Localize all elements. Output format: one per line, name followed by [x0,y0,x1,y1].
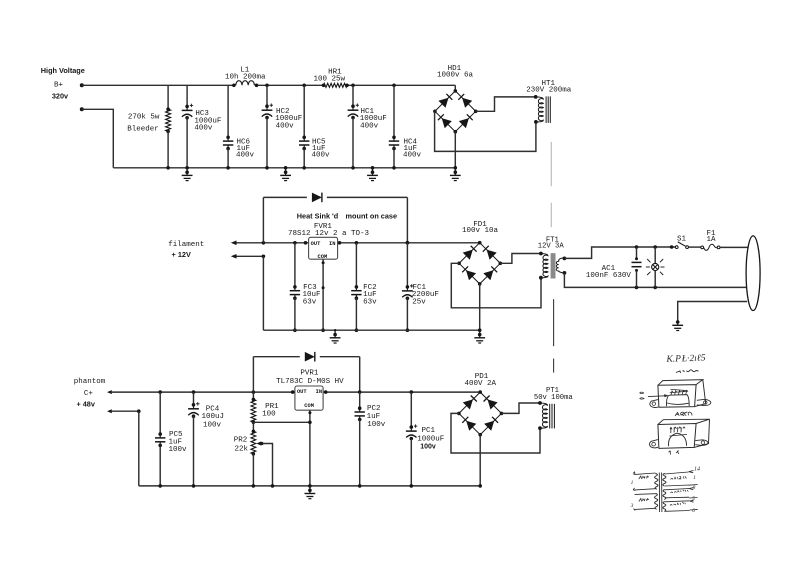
svg-text:400V 2A: 400V 2A [464,380,496,388]
ground HV-2 [285,168,287,172]
svg-text:400v: 400v [360,123,379,131]
svg-text:mount on case: mount on case [346,212,398,221]
wire HD1 AC2 to HT1 bottom [435,111,536,151]
bridge rectifier FD1 100v 10a [459,243,500,284]
bridge rectifier HD1 1000v 6a [435,91,476,132]
wire FT1 primary top to switch [564,247,675,258]
inductor L1 10h 200ma [232,84,236,88]
wire FD1 minus to ground rail [479,284,481,330]
svg-text:IN: IN [316,389,322,395]
svg-text:PC2: PC2 [367,405,381,413]
svg-text:100v 10a: 100v 10a [462,227,499,235]
wire FVD bypass top [263,196,307,198]
wire FT1 primary bottom [564,273,746,288]
transformer FT1 12V 3A [539,252,543,256]
capacitor HC3 1000uF 400v [186,85,188,106]
terminal B- [80,107,84,111]
svg-text:3: 3 [630,503,634,509]
svg-text:78S12 12v 2 a TO-3: 78S12 12v 2 a TO-3 [288,230,370,238]
svg-text:8: 8 [693,485,696,491]
transformer HT1 230V 200ma [534,95,538,99]
resistor bleeder 270k 5w [167,85,169,109]
svg-text:phantom: phantom [74,378,106,386]
svg-text:IN: IN [329,241,335,247]
svg-text:63v: 63v [363,299,377,307]
svg-text:400v: 400v [312,152,331,160]
ground HV-4 [454,168,456,172]
resistor PR1 100 [252,390,256,394]
svg-text:100: 100 [262,411,276,419]
svg-text:TL783C D-M0S HV: TL783C D-M0S HV [276,378,344,386]
svg-text:100nF 630V: 100nF 630V [586,272,632,280]
svg-text:14: 14 [694,466,700,473]
wire PD1 AC2 to PT1 bottom [451,413,540,453]
junction AC bottom at AC1 [635,286,639,290]
terminal C- [107,409,112,413]
svg-text:1uF: 1uF [367,413,381,421]
wire FVD anode riser [262,197,264,242]
wire +12V rail [237,242,309,244]
transformer PT1 50v 100ma [538,401,542,405]
wire PD1 AC1 to PT1 top [502,403,541,413]
capacitor HC2 1000uF 400v [265,84,269,88]
svg-text:100v: 100v [203,421,222,429]
wire S1 to F1 [689,246,701,248]
wire 12V return [237,255,264,257]
sketch transformer rear view box [658,424,696,449]
svg-text:OUT: OUT [297,389,307,395]
capacitor HC6 1uF 400v [227,85,229,137]
wire PVR1 COM stem [309,410,311,486]
svg-text:S1: S1 [677,236,687,244]
svg-text:Heat Sink 'd: Heat Sink 'd [297,212,338,221]
svg-text:+ 48v: + 48v [76,400,95,409]
capacitor PC4 100uJ 100v [192,390,196,394]
resistor HR1 100 25w [322,84,326,88]
pin PVR1 IN [324,390,328,394]
junction AC top at S1 [670,245,674,249]
capacitor PC1 1000uF 100v [410,390,414,394]
terminal 12V return [231,254,237,259]
capacitor HC5 1uF 400v [302,84,306,88]
wire C+ rail [112,391,295,393]
pin FVR1 OUT [304,241,308,245]
capacitor PC2 1uF 100v [358,390,362,394]
diode FVD1 bypass [312,193,322,203]
svg-text:Bleeder: Bleeder [127,125,159,133]
bridge rectifier PD1 400V 2A [459,392,502,435]
capacitor FC3 10uF 63v [293,241,297,245]
terminal B+ [80,83,84,87]
svg-text:400v: 400v [236,152,255,160]
ground FIL-2 [479,330,481,334]
svg-text:1000v 6a: 1000v 6a [437,71,474,79]
pin PVR1 OUT [291,390,295,394]
svg-text:6: 6 [692,508,695,514]
svg-text:50v 100ma: 50v 100ma [534,394,574,402]
wire PR1 to COM [253,421,310,423]
svg-text:63v: 63v [303,299,317,307]
wire C- return [112,410,139,412]
terminal C+ [107,390,112,394]
ground HV-3 [372,168,374,172]
wire B+ rail [82,84,234,86]
svg-text:100uJ: 100uJ [202,413,225,421]
svg-text:PVR1: PVR1 [300,370,319,378]
resistor PR2 22k pot [252,422,254,431]
svg-text:5: 5 [692,496,695,502]
junction AC top at neon [653,245,657,249]
svg-text:1A: 1A [706,236,716,244]
wire F1 to plug [720,246,748,248]
wire PVD anode riser [252,357,254,392]
junction +12V [262,241,266,245]
wire plug ground lead [678,302,748,323]
wire PVD bypass top [253,356,299,358]
svg-text:High Voltage: High Voltage [41,66,85,75]
switch S1 [675,246,678,249]
wire FVD cathode riser [406,197,408,242]
pin FVR1 IN [338,241,342,245]
capacitor FC2 1uF 63v [355,241,359,245]
svg-text:K.P Ł·2ıℓ5: K.P Ł·2ıℓ5 [665,354,706,365]
ground FIL-1 [334,330,336,334]
chassis boundary dashed line [550,142,552,186]
svg-text:100v: 100v [420,444,436,451]
junction AC bottom at neon [653,286,657,290]
svg-text:400v: 400v [276,123,295,131]
capacitor AC1 100nF 630V [636,247,638,259]
sketch transformer front view box [658,385,696,408]
svg-text:320v: 320v [52,92,69,101]
wire FVR1 COM stem [322,259,324,330]
capacitor PC5 1uF 100v [158,390,162,394]
svg-text:270k 5w: 270k 5w [128,113,160,121]
svg-text:100v: 100v [367,421,386,429]
svg-text:OUT: OUT [311,241,321,247]
diode PVD1 bypass [305,352,315,362]
wire phantom ground rail [139,485,480,487]
ground MAINS [676,320,680,324]
wire B- return [82,109,114,168]
sketch rear label [675,412,692,416]
svg-text:100v: 100v [169,446,188,454]
lamp NE1 neon [654,247,656,264]
svg-text:B+: B+ [54,81,64,89]
svg-text:+ 12V: + 12V [172,250,191,259]
connector AC plug [746,236,760,311]
svg-text:1: 1 [693,475,696,481]
svg-text:COM: COM [318,254,328,260]
capacitor HC4 1uF 400v [392,84,396,88]
wire HV ground rail [113,167,455,169]
wire FD1 AC1 to FT1 top [500,254,541,264]
sketch rear pin marks [668,450,678,454]
svg-text:12V 3A: 12V 3A [538,243,565,251]
svg-text:1: 1 [631,480,634,486]
svg-text:400v: 400v [403,152,422,160]
capacitor HC1 1000uF 400v [351,84,355,88]
sketch front label [676,370,699,373]
sketch winding diagram [633,472,656,475]
svg-text:C+: C+ [84,390,94,398]
wire PVD cathode riser [359,357,361,392]
wire HD1 minus to ground rail [454,132,456,168]
svg-text:PC1: PC1 [422,427,436,435]
svg-text:400v: 400v [194,125,213,133]
svg-text:230V 200ma: 230V 200ma [526,87,572,95]
wire HD1 AC1 to HT1 top [476,97,536,111]
terminal +12V out [231,241,237,246]
wire filament ground rail [263,329,479,331]
svg-text:COM: COM [304,403,314,409]
fuse F1 1A [701,246,704,249]
svg-text:PR2: PR2 [234,436,248,444]
wire FD1 AC2 to FT1 bottom [451,263,541,308]
svg-text:25v: 25v [412,299,426,307]
svg-text:100 25w: 100 25w [313,75,345,83]
svg-text:1000uF: 1000uF [417,435,444,443]
sketch front pin callout [648,395,665,398]
svg-text:filament: filament [168,241,204,249]
junction AC top at AC1 [635,245,639,249]
wiper PR2 arrow [256,442,261,446]
ground HV-1 [186,168,188,172]
wire PD1 minus to ground rail [479,435,481,486]
svg-text:22k: 22k [234,445,248,453]
capacitor FC1 2200uF 25v [406,241,410,245]
svg-text:10h 200ma: 10h 200ma [225,73,266,81]
ground PH-1 [309,486,311,490]
svg-text:PC4: PC4 [206,405,220,413]
